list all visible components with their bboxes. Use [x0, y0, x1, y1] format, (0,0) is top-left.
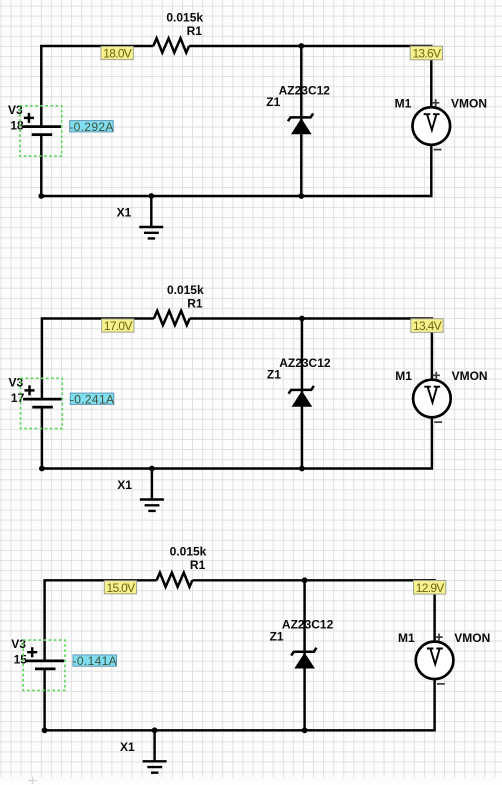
- svg-text:M1: M1: [398, 631, 415, 645]
- svg-text:VMON: VMON: [451, 97, 487, 111]
- junction node: ground tap (circuit 3): [152, 727, 158, 733]
- zener diode Z1 cathode bar (circuit 3): [291, 648, 316, 656]
- voltmeter plus terminal mark (circuit 2): [433, 372, 440, 379]
- wire: left lower + bottom + voltmeter lower (circuit 2): [42, 407, 432, 468]
- svg-text:V3: V3: [8, 103, 23, 117]
- origin cross marker: [28, 777, 37, 785]
- svg-text:17.0V: 17.0V: [104, 319, 133, 333]
- svg-text:15: 15: [14, 653, 28, 667]
- junction node: ground tap (circuit 1): [148, 193, 154, 199]
- wire: zener branch vertical (circuit 2): [301, 319, 303, 469]
- svg-text:V3: V3: [9, 375, 24, 389]
- wire: zener branch vertical (circuit 3): [303, 580, 305, 730]
- battery V3 long plate (circuit 3): [26, 660, 65, 663]
- wire: top-left + left upper segment (circuit 1): [41, 46, 153, 126]
- current probe label -0.241A (circuit 2): [70, 392, 114, 406]
- svg-text:-0.141A: -0.141A: [73, 654, 117, 668]
- zener diode Z1 cathode bar (circuit 1): [288, 113, 313, 121]
- voltage probe label 15.0V (circuit 3): [104, 581, 136, 595]
- zener diode Z1 cathode bar (circuit 2): [289, 386, 314, 394]
- svg-text:18.0V: 18.0V: [103, 47, 132, 61]
- junction node: battery bottom corner (circuit 1): [38, 193, 44, 199]
- voltage probe label 18.0V (circuit 1): [101, 46, 133, 60]
- svg-text:X1: X1: [117, 206, 132, 220]
- selection box around V3 (circuit 3): [23, 640, 65, 690]
- svg-text:15.0V: 15.0V: [107, 581, 136, 595]
- svg-text:0.015k: 0.015k: [167, 283, 204, 297]
- wire: left lower + bottom + voltmeter lower (circuit 3): [45, 669, 435, 730]
- selection box around V3 (circuit 2): [21, 378, 63, 428]
- svg-text:R1: R1: [190, 558, 206, 572]
- zener diode Z1 anode triangle (circuit 2): [293, 392, 312, 407]
- svg-text:0.015k: 0.015k: [166, 10, 203, 24]
- ground X1 stem (circuit 2): [151, 469, 153, 500]
- svg-text:VMON: VMON: [452, 369, 488, 383]
- resistor R1 (circuit 3): [157, 573, 193, 587]
- resistor R1 (circuit 2): [154, 311, 190, 325]
- wire: top-left + left upper segment (circuit 2): [42, 319, 154, 399]
- voltmeter M1 V glyph (circuit 2): [425, 387, 439, 403]
- selection box around V3 (circuit 1): [20, 106, 62, 156]
- battery V3 short plate (circuit 1): [32, 133, 52, 136]
- voltmeter minus terminal mark (circuit 2): [434, 421, 442, 423]
- svg-text:X1: X1: [117, 478, 132, 492]
- zener diode Z1 anode triangle (circuit 3): [295, 654, 314, 669]
- battery V3 plus sign (circuit 2): [25, 385, 35, 395]
- svg-text:M1: M1: [395, 369, 412, 383]
- junction node: zener top (circuit 1): [298, 43, 304, 49]
- ground X1 stem (circuit 3): [153, 730, 155, 761]
- battery V3 long plate (circuit 2): [23, 398, 62, 401]
- svg-text:Z1: Z1: [266, 95, 280, 109]
- junction node: zener bottom (circuit 1): [298, 193, 304, 199]
- ground X1 bars (circuit 3): [143, 761, 167, 772]
- battery V3 short plate (circuit 3): [35, 668, 56, 671]
- junction node: zener bottom (circuit 3): [302, 727, 308, 733]
- wire: left lower + bottom + voltmeter lower (circuit 1): [41, 135, 431, 196]
- wire: top right segment to voltmeter corner (circuit 3): [192, 580, 434, 642]
- junction node: zener bottom (circuit 2): [299, 466, 305, 472]
- junction node: battery bottom corner (circuit 2): [39, 466, 45, 472]
- svg-text:17: 17: [11, 391, 25, 405]
- svg-text:VMON: VMON: [454, 631, 490, 645]
- battery V3 long plate (circuit 1): [23, 125, 62, 128]
- wire: top right segment to voltmeter corner (circuit 1): [189, 46, 431, 108]
- svg-text:0.015k: 0.015k: [170, 545, 207, 559]
- svg-text:-0.292A: -0.292A: [69, 120, 113, 134]
- svg-text:13.4V: 13.4V: [413, 319, 442, 333]
- wire: top-left + left upper segment (circuit 3): [45, 580, 157, 660]
- junction node: zener top (circuit 3): [302, 577, 308, 583]
- svg-text:V3: V3: [11, 637, 26, 651]
- svg-text:AZ23C12: AZ23C12: [279, 356, 331, 370]
- resistor R1 (circuit 1): [153, 38, 189, 52]
- ground X1 bars (circuit 2): [140, 500, 164, 511]
- voltage probe label 13.6V (circuit 1): [410, 46, 442, 60]
- zener diode Z1 anode triangle (circuit 1): [292, 119, 311, 134]
- svg-text:X1: X1: [120, 740, 135, 754]
- voltmeter plus terminal mark (circuit 1): [432, 99, 439, 106]
- voltmeter minus terminal mark (circuit 1): [434, 149, 442, 151]
- svg-text:AZ23C12: AZ23C12: [282, 618, 334, 632]
- svg-text:R1: R1: [187, 24, 203, 38]
- svg-text:M1: M1: [395, 97, 412, 111]
- wire: top right segment to voltmeter corner (circuit 2): [190, 319, 432, 381]
- battery V3 plus sign (circuit 1): [24, 113, 34, 123]
- current probe label -0.292A (circuit 1): [69, 120, 113, 134]
- junction node: ground tap (circuit 2): [149, 466, 155, 472]
- voltmeter M1 circle (circuit 2): [413, 380, 451, 418]
- svg-text:R1: R1: [187, 296, 203, 310]
- svg-text:Z1: Z1: [270, 629, 284, 643]
- ground X1 bars (circuit 1): [139, 227, 163, 238]
- svg-text:18: 18: [10, 118, 24, 132]
- voltmeter M1 circle (circuit 3): [416, 642, 454, 680]
- voltmeter minus terminal mark (circuit 3): [437, 683, 445, 685]
- battery V3 short plate (circuit 2): [32, 406, 53, 409]
- svg-text:Z1: Z1: [267, 368, 281, 382]
- voltmeter M1 V glyph (circuit 1): [425, 114, 439, 130]
- voltmeter plus terminal mark (circuit 3): [435, 634, 442, 641]
- voltmeter M1 V glyph (circuit 3): [428, 649, 442, 665]
- voltage probe label 13.4V (circuit 2): [411, 319, 443, 333]
- svg-text:AZ23C12: AZ23C12: [279, 83, 331, 97]
- voltage probe label 12.9V (circuit 3): [414, 581, 446, 595]
- wire: zener branch vertical (circuit 1): [300, 46, 302, 196]
- ground X1 stem (circuit 1): [150, 196, 152, 227]
- voltage probe label 17.0V (circuit 2): [102, 319, 134, 333]
- current probe label -0.141A (circuit 3): [73, 654, 117, 668]
- battery V3 plus sign (circuit 3): [27, 647, 37, 657]
- junction node: zener top (circuit 2): [299, 316, 305, 322]
- svg-text:13.6V: 13.6V: [412, 47, 441, 61]
- voltmeter M1 circle (circuit 1): [413, 107, 451, 145]
- junction node: battery bottom corner (circuit 3): [42, 727, 48, 733]
- svg-text:-0.241A: -0.241A: [70, 392, 114, 406]
- svg-text:12.9V: 12.9V: [416, 581, 445, 595]
